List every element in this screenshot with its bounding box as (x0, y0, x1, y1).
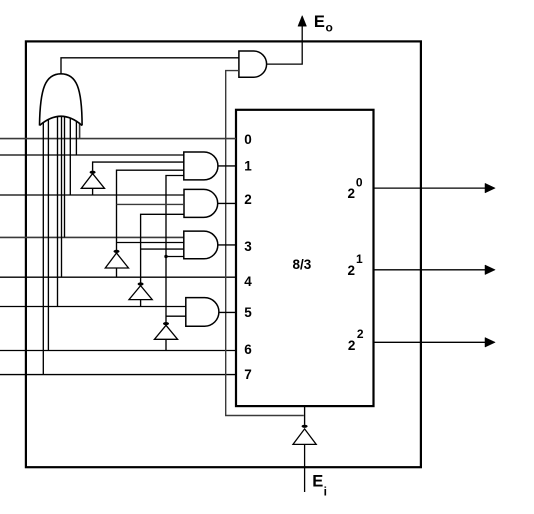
svg-text:1: 1 (356, 252, 363, 266)
OR gate G0 (8-input) (40, 74, 83, 126)
svg-text:2: 2 (357, 327, 364, 341)
svg-text:2: 2 (348, 338, 356, 353)
svg-text:3: 3 (244, 239, 252, 254)
svg-text:0: 0 (244, 132, 252, 147)
outer box (26, 41, 421, 467)
and-gate G5 (input 5) (186, 298, 219, 327)
wire output 2^0 with arrowhead (374, 183, 496, 193)
inverter A (NOT 2) (81, 171, 104, 195)
svg-text:1: 1 (244, 158, 252, 173)
inverter B output wire to G1 (117, 170, 184, 250)
svg-text:0: 0 (356, 175, 363, 189)
svg-text:E: E (312, 473, 323, 491)
wire input line 2 (0, 194, 184, 196)
wire G5 output to encoder pin 5 (219, 311, 236, 313)
wire OR gate output to AND U2 top input (61, 58, 239, 74)
wire input line 1 (0, 154, 184, 156)
inverter B branch wire to G3 (117, 242, 184, 244)
wire OR input from line 7 (42, 122, 44, 375)
wire G3 output to encoder pin 3 (218, 244, 236, 246)
wire G1 output to encoder pin 1 (218, 165, 236, 167)
arrowhead Eo (298, 16, 307, 27)
wire OR input from line 3 (64, 117, 66, 238)
and-gate G2 (input 2) (184, 189, 218, 217)
output label 2^0 (348, 175, 363, 201)
wire OR input from line 4 (61, 116, 63, 277)
inverter B branch wire to G2 (117, 203, 185, 205)
wire U2 lower input from Ei inverter (226, 71, 304, 416)
wire OR input from line 1 (75, 121, 77, 155)
svg-text:2: 2 (244, 192, 252, 207)
svg-text:i: i (324, 485, 327, 499)
svg-text:7: 7 (244, 367, 252, 382)
wire U2 output to Eo (267, 25, 303, 64)
svg-text:5: 5 (244, 305, 252, 320)
and-gate U2 (enable output gate) (239, 51, 267, 77)
and-gate G3 (input 3) (184, 231, 218, 259)
inverter D output wire to G1 (166, 176, 184, 323)
junction dot on inverter D line (164, 255, 167, 258)
wire OR input from line 5 (57, 117, 59, 307)
wire output 2^1 with arrowhead (374, 265, 496, 275)
wire input line 7 (0, 374, 236, 376)
wire G2 output to encoder pin 2 (218, 202, 236, 204)
wire input line 3 (0, 236, 184, 238)
label Ei (312, 473, 327, 499)
inverter D branch wire to G3 (166, 256, 184, 258)
output label 2^2 (348, 327, 364, 353)
wire input line 0 (0, 138, 236, 140)
inverter D (NOT 6) (154, 322, 177, 351)
svg-text:E: E (314, 13, 325, 31)
inverter A output wire to G1 (93, 162, 184, 171)
and-gate G1 (input 1) (184, 152, 218, 180)
output label 2^1 (348, 252, 364, 278)
label Eo (314, 13, 333, 34)
svg-text:o: o (326, 20, 333, 34)
wire input line 6 (0, 350, 236, 352)
inverter C output wire to G2 (141, 214, 184, 283)
wire output 2^2 with arrowhead (374, 338, 496, 348)
svg-text:6: 6 (244, 342, 252, 357)
inverter B (NOT 4) (105, 250, 128, 277)
inverter C (NOT 5) (129, 282, 152, 306)
svg-text:8/3: 8/3 (293, 257, 312, 272)
wire input line 4 (0, 276, 236, 278)
svg-text:2: 2 (348, 263, 356, 278)
wire OR input from line 0 (79, 123, 81, 139)
inverter E (Ei input buffer) (293, 406, 316, 493)
inverter C branch wire to G3 (141, 248, 184, 250)
svg-text:2: 2 (348, 186, 356, 201)
svg-text:4: 4 (244, 274, 252, 289)
wire OR input from line 6 (47, 120, 49, 351)
wire OR input from line 2 (69, 118, 71, 195)
wire input line 5 (0, 306, 186, 308)
encoder U1 8/3 box (236, 110, 374, 406)
inverter D branch wire to G5 (166, 315, 186, 317)
